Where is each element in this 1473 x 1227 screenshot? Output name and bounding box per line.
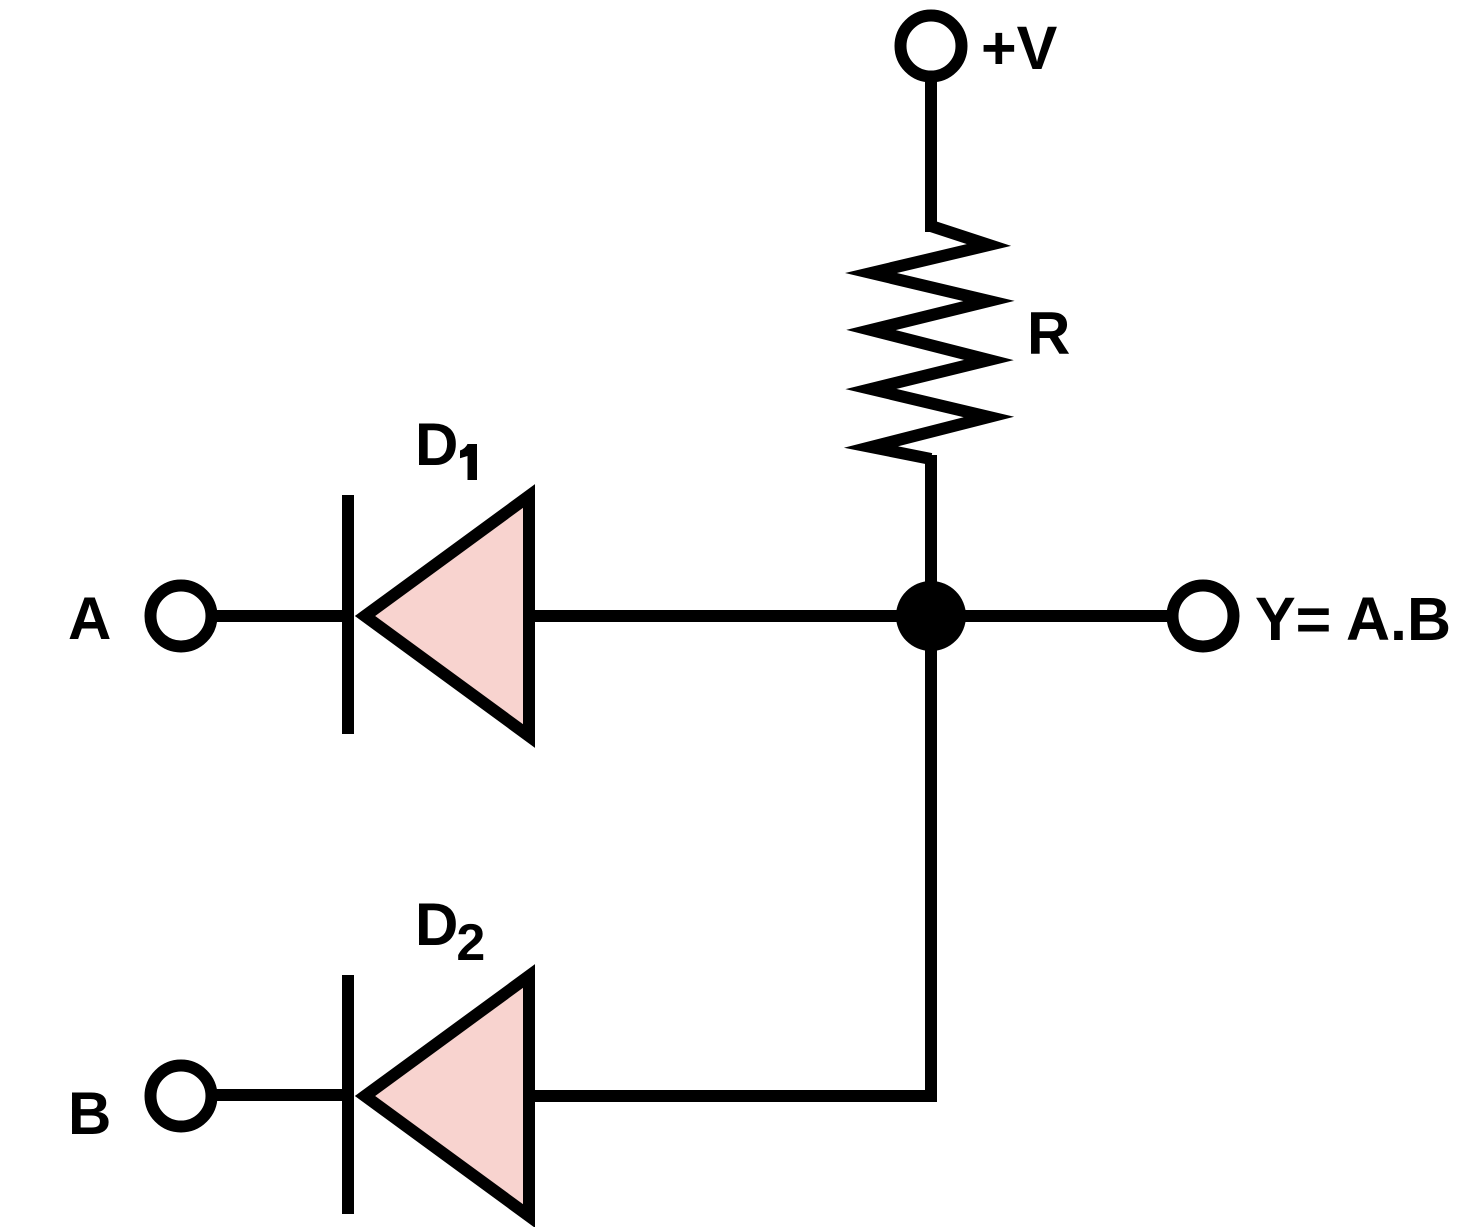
wire D2 to junction — [529, 616, 931, 1096]
wire A to D1 — [212, 610, 348, 622]
svg-text:D: D — [415, 411, 458, 478]
node junction — [896, 581, 966, 651]
svg-text:Y= A.B: Y= A.B — [1255, 585, 1451, 653]
svg-text:+V: +V — [981, 14, 1058, 82]
wire junction to output — [931, 610, 1173, 622]
terminal A — [151, 586, 212, 647]
diode D1 triangle — [365, 496, 529, 736]
diode D2 cathode bar — [342, 975, 354, 1214]
svg-text:D2: D2 — [415, 891, 485, 972]
resistor R — [871, 226, 989, 459]
wire B to D2 — [212, 1089, 348, 1101]
wire +V stem — [925, 78, 937, 232]
wire resistor to junction — [925, 455, 937, 625]
svg-text:R: R — [1027, 300, 1070, 367]
diode D1 cathode bar — [342, 495, 354, 734]
terminal +V — [901, 16, 962, 77]
svg-text:A: A — [68, 585, 111, 652]
diode D2 triangle — [365, 976, 529, 1216]
svg-text:B: B — [68, 1080, 111, 1147]
terminal B — [151, 1066, 212, 1127]
wire D1 to junction — [529, 610, 931, 622]
terminal Y — [1173, 586, 1234, 647]
